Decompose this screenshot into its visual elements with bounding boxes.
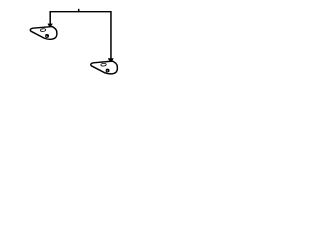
node B (right blob) xyxy=(91,61,118,74)
wire: horizontal trunk xyxy=(50,11,111,13)
node A (left blob) xyxy=(30,27,57,40)
arrowhead into node A xyxy=(48,24,53,28)
root tick (junction stub) xyxy=(78,9,80,12)
wire: left drop xyxy=(49,11,51,24)
arrowhead into node B xyxy=(108,59,113,63)
wire: right drop xyxy=(110,11,112,59)
